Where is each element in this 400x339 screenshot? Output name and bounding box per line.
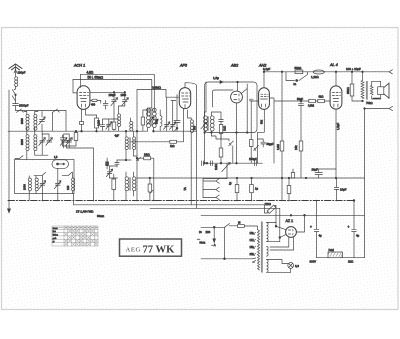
AF3 plate coil L9 bbox=[190, 120, 193, 133]
wire HT return y215.3 bbox=[201, 214, 365, 216]
svg-text:AF3: AF3 bbox=[179, 64, 188, 68]
node dot can bottom 2 bbox=[211, 132, 213, 134]
IF transformer T1 secondary coil bbox=[133, 137, 136, 150]
node dot OT top bbox=[362, 71, 364, 73]
svg-text:1μ: 1μ bbox=[228, 182, 232, 185]
svg-text:150: 150 bbox=[250, 246, 255, 249]
trimmer capacitor C5 bbox=[66, 138, 73, 146]
T3 leads bbox=[148, 128, 154, 131]
antenna coupling coil bbox=[15, 77, 18, 87]
phono switch contact Sp1 bbox=[203, 179, 219, 184]
capacitor Cx on AF line bbox=[202, 161, 204, 166]
electrolytic cap dark box bbox=[105, 162, 109, 167]
wire L9 bottom down to AF rail bbox=[190, 133, 192, 205]
P1 wiper arrow bbox=[222, 162, 230, 171]
grid choke pill on second line bbox=[90, 100, 101, 103]
switch contact above box bbox=[15, 156, 23, 159]
wires lamp to heater winding bbox=[267, 260, 291, 273]
output transformer secondary (zigzag) bbox=[370, 86, 373, 96]
wire rail A right (output supply) bbox=[264, 71, 389, 73]
dial lamp circle bbox=[288, 263, 294, 269]
switch contact S3a bbox=[34, 172, 46, 175]
oscillator coil L8 bbox=[118, 114, 121, 127]
coil L3 (band 2) bbox=[26, 135, 29, 151]
tube AH2 envelope bbox=[259, 88, 270, 110]
svg-text:1500pF: 1500pF bbox=[19, 104, 29, 108]
field coil hatching bbox=[328, 252, 343, 258]
IF transformer T2 secondary bbox=[132, 177, 136, 191]
wire R15 to OT bbox=[352, 96, 363, 101]
svg-text:15k: 15k bbox=[294, 145, 298, 150]
screen distribution line y89.5 bbox=[137, 90, 179, 98]
svg-text:400: 400 bbox=[91, 104, 96, 107]
svg-text:20Ω: 20Ω bbox=[348, 259, 353, 263]
primary tap arrow 150 bbox=[252, 247, 255, 249]
wire AL4 cathode down bbox=[335, 109, 337, 178]
svg-text:AEG: AEG bbox=[126, 247, 141, 254]
wire screen feed x301 bbox=[300, 106, 302, 178]
name plate box bbox=[120, 239, 182, 256]
node dot R8 bottom bbox=[220, 162, 222, 164]
resistor R2 bbox=[112, 122, 116, 129]
terminal arrow right end of rail A bbox=[389, 70, 393, 74]
node dot AF bbox=[204, 162, 206, 164]
fuse Si bbox=[238, 225, 245, 228]
wire R2 bottom bbox=[113, 129, 115, 131]
wire ACH1 cathode pins down bbox=[82, 109, 97, 131]
wire osc link bbox=[112, 118, 118, 120]
wires resistor R1 bbox=[96, 115, 98, 131]
svg-text:Weiss: Weiss bbox=[53, 235, 58, 237]
primary tap arrow bottom bbox=[252, 261, 255, 263]
wires R7 bbox=[220, 121, 222, 139]
AH2 output line to AL4 grid bbox=[269, 98, 330, 101]
grid resistor R13 bbox=[318, 99, 325, 102]
svg-text:0,1M: 0,1M bbox=[97, 120, 101, 126]
IF transformer T4 primary bbox=[204, 116, 208, 131]
tube AL4 electrodes bbox=[332, 93, 340, 107]
indicator pointer bbox=[58, 163, 66, 165]
switch contact S1b bbox=[12, 96, 15, 101]
capacitor on x177 bbox=[174, 121, 180, 123]
coil L1 (antenna circuit) bbox=[26, 114, 29, 130]
node dot T1 bbox=[125, 130, 127, 132]
trimmer capacitor C6 in box bbox=[39, 181, 46, 189]
trimmer capacitor C7 in box bbox=[54, 181, 61, 189]
svg-text:3000: 3000 bbox=[20, 118, 24, 124]
filter cap C25 electrolytic bbox=[352, 201, 357, 258]
wires R19 bbox=[137, 158, 154, 200]
band switch unit enclosure bbox=[15, 160, 75, 194]
T2 leads bbox=[126, 172, 133, 201]
node dot AF line bbox=[206, 162, 208, 164]
node dot AZ1 anode top bbox=[275, 225, 277, 227]
switch contact S2b bbox=[53, 109, 60, 112]
AVC filter resistor below y131 bbox=[74, 133, 78, 141]
node dot x76 bbox=[75, 130, 77, 132]
wire fuse to transformer bbox=[244, 226, 257, 230]
wires C14/C15 bbox=[167, 97, 173, 131]
node dot x282 y178 bbox=[281, 177, 283, 179]
ground symbol bbox=[8, 201, 11, 213]
trimmer capacitor C4 bbox=[60, 138, 67, 146]
dial lamp cross bbox=[289, 263, 293, 267]
wire trimmer C1 bbox=[41, 112, 43, 132]
resistor R5 bbox=[141, 117, 144, 125]
diode arrow on can top edge bbox=[220, 81, 223, 84]
svg-text:Rot: Rot bbox=[53, 230, 57, 233]
field coil hatched bbox=[328, 252, 343, 258]
svg-text:1,2kΩ: 1,2kΩ bbox=[311, 75, 319, 79]
wire AL4 anode from rail A bbox=[335, 72, 337, 86]
wire switch to fuse bbox=[229, 225, 238, 227]
small cap C13 bbox=[115, 160, 126, 167]
cathode bypass capacitor C20 bbox=[315, 169, 336, 178]
svg-text:2T·1,464 WΩ: 2T·1,464 WΩ bbox=[76, 210, 94, 214]
T3 core bbox=[150, 111, 151, 125]
svg-text:12kΩ: 12kΩ bbox=[265, 202, 271, 206]
node dot R1 bottom bbox=[96, 130, 98, 132]
node dot C21 bbox=[236, 177, 238, 179]
wire coil L2 top bbox=[35, 112, 38, 115]
IF transformer T1 primary coil bbox=[125, 137, 128, 150]
coupling capacitor C16 plates bbox=[249, 99, 253, 101]
grid resistor R12 bbox=[309, 99, 316, 102]
svg-text:77 WK: 77 WK bbox=[143, 245, 176, 256]
switch arrow x177 bbox=[174, 128, 178, 132]
svg-text:Skala: Skala bbox=[53, 228, 59, 230]
resistor R19 horizontal bbox=[144, 157, 151, 160]
antenna symbol bbox=[9, 64, 22, 70]
svg-text:~ A: ~ A bbox=[212, 243, 216, 247]
svg-text:100 + 10μF: 100 + 10μF bbox=[346, 67, 361, 71]
tube ACH1 envelope bbox=[77, 86, 90, 110]
svg-text:+: + bbox=[310, 225, 312, 229]
thick wire blob bbox=[373, 97, 380, 99]
tube AB2 diode plates bbox=[234, 94, 239, 101]
resistor R1 0.1M vertical bbox=[95, 118, 99, 128]
resistor R8 bbox=[219, 148, 223, 157]
tube ACH1 electrodes bbox=[80, 93, 89, 108]
T4 top lead right bbox=[211, 112, 221, 119]
mains line upper bbox=[201, 226, 225, 228]
capacitor C19 50pF bbox=[258, 139, 266, 147]
switch contact S3b bbox=[62, 172, 72, 175]
decoupling capacitor C21 bbox=[235, 185, 239, 193]
AVC line bbox=[90, 91, 125, 93]
T2 core bbox=[129, 178, 130, 191]
antenna lead wire bbox=[15, 65, 17, 78]
wire x281 screen rail lower bbox=[281, 178, 283, 201]
terminal arrow bottom bbox=[389, 106, 393, 110]
svg-text:0,1μF: 0,1μF bbox=[263, 67, 270, 71]
node dot AZ1 anode bottom bbox=[279, 237, 281, 239]
resistor R6 cathode bbox=[170, 140, 177, 143]
speaker magnet pot bbox=[378, 87, 384, 95]
wire rail y208.3 bbox=[150, 208, 280, 237]
svg-text:150pF: 150pF bbox=[109, 94, 117, 97]
wire coil L1 top bbox=[24, 112, 27, 115]
capacitor 1500pF plates bbox=[13, 104, 19, 106]
wires AVC filter resistor bbox=[63, 131, 77, 146]
svg-text:4μ: 4μ bbox=[319, 234, 323, 238]
wire switch S2b down bbox=[52, 112, 54, 131]
filter cap C24 electrolytic bbox=[314, 201, 319, 258]
wires inside switch box bbox=[29, 168, 72, 193]
T4 bottom leads bbox=[205, 131, 221, 163]
svg-text:3000: 3000 bbox=[20, 139, 24, 145]
svg-text:500: 500 bbox=[156, 119, 159, 124]
svg-text:0,8MΩ: 0,8MΩ bbox=[152, 86, 162, 90]
trimmer capacitor C14 bbox=[164, 122, 170, 130]
svg-text:0,3M: 0,3M bbox=[276, 144, 280, 150]
wire long vertical x364.5 to PSU bbox=[364, 109, 366, 258]
wire coils bottoms to bus y131 bbox=[27, 128, 35, 132]
tube AH2 electrodes bbox=[260, 94, 268, 107]
svg-text:300V: 300V bbox=[310, 259, 317, 263]
coil L2 bbox=[34, 114, 37, 130]
svg-text:70kΩ: 70kΩ bbox=[366, 101, 373, 105]
switch arrow below R4 bbox=[150, 190, 153, 194]
AF line y163 bbox=[205, 162, 258, 164]
svg-text:1kΩ: 1kΩ bbox=[170, 145, 175, 148]
wires R9 bbox=[250, 101, 252, 163]
node dot R16 bbox=[288, 177, 290, 179]
node dot C13 bbox=[125, 159, 127, 161]
svg-text:4μF: 4μF bbox=[115, 134, 120, 138]
svg-text:+: + bbox=[348, 225, 350, 229]
svg-text:4,8Ω: 4,8Ω bbox=[87, 70, 94, 74]
wire phono vertical bbox=[203, 179, 227, 198]
wire to series capacitor bbox=[15, 95, 17, 104]
wires R4 bbox=[149, 178, 151, 201]
svg-text:30mΩ: 30mΩ bbox=[97, 214, 104, 218]
node dot C9b top bbox=[124, 92, 126, 94]
padder coil L10 bbox=[160, 110, 162, 131]
wires secondary to speaker bbox=[372, 81, 381, 99]
node dot AH2 rail A bbox=[263, 71, 265, 73]
svg-text:150pF: 150pF bbox=[249, 157, 257, 161]
primary tap arrow 110 bbox=[252, 233, 255, 235]
wire can right inner drop bbox=[246, 89, 248, 133]
output terminal line bottom bbox=[365, 108, 390, 110]
node dot OT bbox=[362, 100, 364, 102]
svg-text:10kΩ: 10kΩ bbox=[144, 154, 150, 157]
svg-text:220: 220 bbox=[250, 253, 255, 256]
capacitor C8 bbox=[103, 100, 108, 109]
wires box to chassis bus bbox=[29, 194, 58, 201]
resistor R4 bbox=[148, 184, 152, 192]
wire antenna coil to switch bbox=[15, 87, 17, 89]
AVC switch contact bbox=[66, 138, 70, 142]
wire HT top to AZ1 anode bbox=[267, 223, 287, 230]
wire OT primary bottom bbox=[362, 99, 364, 102]
node dots can bottom bbox=[204, 132, 206, 134]
wires dark cap bbox=[106, 158, 108, 169]
wire C12 bbox=[109, 166, 111, 178]
tube AF3 envelope bbox=[179, 88, 190, 109]
wire AH2 anode to rail A bbox=[263, 72, 265, 88]
node dot det line bbox=[236, 162, 238, 164]
wire anode drop ACH1 bbox=[80, 74, 82, 87]
node dot C26 bbox=[300, 100, 302, 102]
table row lines bbox=[52, 229, 98, 242]
svg-text:AB2: AB2 bbox=[230, 64, 239, 68]
node dot mains tap bbox=[213, 226, 215, 228]
svg-text:0,5M: 0,5M bbox=[308, 103, 315, 107]
trimmer capacitor C12 bbox=[106, 169, 112, 177]
primary tap arrow 220 bbox=[252, 254, 255, 256]
AB2 internal wire loop in can bbox=[212, 90, 233, 107]
switch below R9 bbox=[254, 145, 259, 150]
svg-text:ACH 1: ACH 1 bbox=[73, 64, 85, 68]
HT secondary winding bbox=[267, 223, 269, 242]
volume potentiometer P1 bbox=[226, 163, 228, 178]
AF3 lower grid stub bbox=[171, 100, 176, 102]
wire L3/L4 tops to y131 bbox=[27, 131, 35, 135]
wire switch common vertical bbox=[224, 227, 226, 258]
resistor R16 bbox=[287, 186, 291, 194]
node dot bbox=[15, 94, 17, 96]
wire L9 top bbox=[190, 118, 192, 120]
coupling coil L8b bbox=[130, 121, 133, 131]
wire R17 top bbox=[292, 169, 294, 173]
shunt capacitor C26 bbox=[298, 101, 303, 106]
wire R8 down bbox=[220, 134, 222, 164]
node dot y178 x336 bbox=[335, 177, 337, 179]
capacitor C11 bbox=[100, 119, 112, 131]
svg-text:20μF: 20μF bbox=[312, 168, 319, 172]
svg-text:4μ: 4μ bbox=[356, 234, 360, 238]
cathode resistor ACH1 bbox=[79, 122, 83, 125]
tube AL4 envelope bbox=[330, 86, 342, 109]
smoothing choke Dr1 on rail A bbox=[313, 70, 324, 74]
svg-text:52kΩ: 52kΩ bbox=[295, 66, 303, 70]
wires C22 bbox=[251, 178, 253, 201]
vertical wire inside can to T4 bbox=[205, 82, 206, 116]
svg-text:110: 110 bbox=[250, 232, 255, 235]
wire rail A left (ACH1/AF3 supply) bbox=[81, 74, 155, 112]
wire HT bottom to AZ1 anode2 bbox=[267, 234, 287, 241]
wire horizontal distribution y110.5 bbox=[16, 110, 67, 112]
node dot C25 top bbox=[353, 200, 355, 202]
wire trimmers to coils row bbox=[42, 131, 69, 140]
node dot y178 x306 bbox=[305, 177, 307, 179]
wire AF grid row y142.5 bbox=[131, 141, 170, 143]
svg-text:Si: Si bbox=[238, 220, 241, 224]
speaker cone bbox=[384, 83, 389, 99]
trimmer arrow C1 bbox=[39, 117, 46, 125]
voltage table frame bbox=[52, 226, 98, 246]
node dot C22 bbox=[251, 177, 253, 179]
junction dots on chassis bus bbox=[42, 200, 318, 202]
oscillator transformer T3 secondary bbox=[152, 108, 156, 128]
svg-text:Netz: Netz bbox=[200, 241, 206, 245]
trimmer capacitor C9b bbox=[122, 92, 129, 106]
antenna plug arrow bbox=[14, 70, 17, 74]
wires R5 bbox=[143, 110, 154, 131]
wire L8 top/bottom bbox=[118, 106, 124, 131]
node dot R4 bbox=[149, 177, 151, 179]
wires R10 bbox=[281, 72, 283, 178]
wire lower mains to tap bbox=[252, 257, 256, 260]
svg-text:6kΩ: 6kΩ bbox=[319, 95, 324, 99]
T4 tuning arrow bbox=[201, 122, 207, 129]
wire AB2 cathode down bbox=[236, 103, 238, 163]
pill body bbox=[92, 99, 97, 101]
wire y131 extension mid bbox=[137, 130, 197, 132]
trimmer capacitor C2 bbox=[39, 138, 46, 146]
svg-text:1,5μ: 1,5μ bbox=[213, 76, 219, 80]
AVC filter capacitor bbox=[60, 135, 64, 146]
svg-text:AL 4: AL 4 bbox=[329, 63, 338, 67]
capacitor C17 bbox=[219, 120, 224, 122]
wire right feed x66 bbox=[65, 111, 67, 132]
wire capacitor down to band switch row bbox=[15, 106, 17, 111]
node dot choke out bbox=[351, 71, 353, 73]
table X marks bbox=[65, 227, 98, 246]
node dot2 bbox=[153, 130, 155, 132]
bypass loop under R11 bbox=[286, 72, 308, 81]
svg-text:1,5μF: 1,5μF bbox=[336, 123, 340, 130]
node dot x364.5/y108.5 bbox=[364, 108, 366, 110]
wire OT primary top to rail A bbox=[362, 72, 364, 81]
node dot R19 left bbox=[136, 157, 138, 159]
IF transformer T4 secondary bbox=[210, 116, 214, 131]
resistor R10 0.3M bbox=[280, 141, 284, 151]
power transformer primary winding bbox=[258, 230, 260, 270]
T1 top leads bbox=[126, 131, 133, 137]
wire trimmer C10 bbox=[108, 119, 110, 131]
resistor R14 15k bbox=[299, 141, 303, 151]
svg-text:Feld: Feld bbox=[329, 248, 335, 252]
bottom HT line right bbox=[343, 257, 365, 259]
IF bandfilter can (rounded shield box) bbox=[205, 82, 258, 133]
IF transformer T2 primary bbox=[125, 177, 128, 191]
bottom HT line bbox=[317, 257, 329, 259]
vertical feed x177 screen bbox=[176, 95, 178, 132]
primary tap arrow 127 bbox=[252, 240, 255, 242]
wires C21 bbox=[236, 178, 238, 201]
capacitor C18 bbox=[255, 160, 257, 165]
svg-text:300: 300 bbox=[194, 125, 197, 130]
wire segment bbox=[110, 160, 132, 166]
capacitor Cy on AF line bbox=[211, 161, 213, 166]
resistor R11 52k on rail A bbox=[295, 70, 303, 74]
phono switch contact Sp3 bbox=[203, 195, 219, 200]
wire AF3 anode up and over to IF can bbox=[185, 83, 197, 209]
node dot x177 bbox=[176, 127, 178, 129]
wire bank2 bottoms bbox=[27, 142, 94, 200]
earth-side vertical wire at left border bbox=[8, 90, 10, 201]
svg-text:127: 127 bbox=[250, 239, 255, 242]
svg-text:50 l. 63mΩ: 50 l. 63mΩ bbox=[88, 76, 104, 80]
band switch indicator tab bbox=[52, 160, 69, 169]
heater winding 6.3V bbox=[267, 260, 269, 273]
svg-text:50μF: 50μF bbox=[297, 97, 303, 101]
svg-text:1500: 1500 bbox=[121, 94, 127, 97]
AZ1 internal electrodes bbox=[288, 229, 293, 235]
chassis ground bus (dash-dot) bbox=[8, 200, 354, 202]
wire hook from can into AB2 bbox=[242, 84, 248, 93]
vertical wire x137 bbox=[136, 90, 138, 201]
tube AB2 envelope bbox=[231, 91, 243, 103]
wire right side corner to rail y204.5 bbox=[73, 194, 75, 205]
node dot C9 top bbox=[113, 92, 115, 94]
trimmer capacitor C15 bbox=[170, 122, 176, 130]
phono switch contact Sp2 bbox=[203, 187, 219, 192]
wire S5 bbox=[221, 139, 233, 163]
